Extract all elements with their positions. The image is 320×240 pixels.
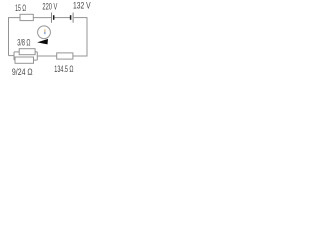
- wire left vertical: [8, 18, 10, 56]
- wire between batteries: [54, 17, 70, 19]
- wire top middle segment: [33, 17, 51, 19]
- wire top right segment: [74, 17, 87, 19]
- node right junction bar: [36, 52, 38, 60]
- battery 220 V short plate: [53, 15, 55, 20]
- compass needle north (orange): [44, 29, 46, 32]
- wire stub 3/8 left: [14, 51, 19, 53]
- wire stub 9/24 right: [34, 59, 38, 61]
- wire left tap: [9, 55, 15, 57]
- wire stub 9/24 left: [14, 59, 15, 61]
- battery 132 V short plate: [70, 15, 72, 20]
- svg-text:220 V: 220 V: [42, 2, 57, 12]
- compass needle south (blue): [44, 32, 46, 34]
- compass circle: [38, 26, 51, 39]
- battery 220 V long plate: [51, 13, 53, 23]
- svg-text:9/24 Ω: 9/24 Ω: [12, 67, 33, 77]
- deflection arrow: [37, 39, 48, 45]
- resistor 3/8 Ω box: [19, 49, 35, 55]
- resistor 9/24 Ω box: [15, 57, 34, 63]
- svg-text:134.5 Ω: 134.5 Ω: [54, 64, 73, 74]
- resistor 15 Ω box: [20, 14, 33, 20]
- svg-text:15 Ω: 15 Ω: [15, 3, 26, 13]
- node left junction bar: [13, 52, 15, 60]
- wire bottom right segment: [73, 55, 88, 57]
- svg-text:3/8 Ω: 3/8 Ω: [17, 38, 30, 48]
- wire bottom middle segment: [37, 55, 56, 57]
- resistor 134.5 Ω box: [57, 53, 73, 59]
- wire right vertical: [86, 17, 88, 56]
- svg-text:132 V: 132 V: [73, 1, 91, 11]
- wire stub 3/8 right: [35, 51, 37, 53]
- wire top left segment: [8, 17, 20, 19]
- battery 132 V long plate: [72, 13, 74, 23]
